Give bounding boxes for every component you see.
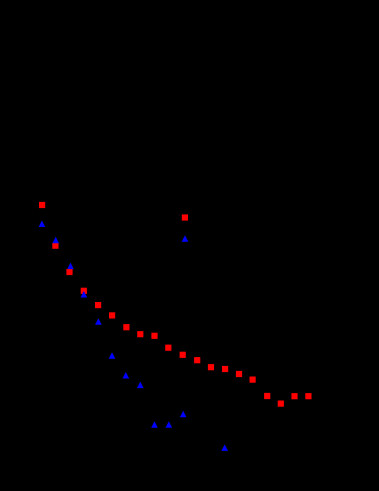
red square marker R12 bbox=[194, 357, 200, 363]
blue triangle marker B3 bbox=[67, 263, 74, 270]
red square marker R14 bbox=[222, 366, 228, 372]
blue triangle marker B9 bbox=[151, 421, 158, 428]
red square marker R16 bbox=[250, 377, 256, 383]
red square marker R2 bbox=[52, 243, 58, 249]
blue triangle marker B13 bbox=[182, 235, 189, 242]
blue triangle marker B6 bbox=[109, 352, 116, 359]
blue triangle marker B2 bbox=[52, 237, 59, 244]
red square marker R4 bbox=[81, 288, 87, 294]
red square marker R13 bbox=[208, 364, 214, 370]
red square marker R17 bbox=[264, 393, 270, 399]
red square marker R1 bbox=[39, 202, 45, 208]
blue triangle marker B12 bbox=[221, 444, 228, 451]
blue triangle marker B5 bbox=[95, 318, 102, 325]
blue triangle marker B8 bbox=[137, 382, 144, 389]
red square marker R20 bbox=[305, 393, 311, 399]
red square marker R3 bbox=[66, 269, 72, 275]
red square marker R6 bbox=[109, 312, 115, 318]
red square marker R5 bbox=[95, 302, 101, 308]
red square marker R15 bbox=[236, 371, 242, 377]
red square marker R7 bbox=[123, 324, 129, 330]
blue triangle marker B11 bbox=[180, 411, 187, 418]
red square marker R11 bbox=[180, 352, 186, 358]
red square marker R9 bbox=[151, 333, 157, 339]
blue triangle marker B7 bbox=[123, 372, 130, 379]
red square marker R18 bbox=[278, 401, 284, 407]
red square marker R8 bbox=[137, 331, 143, 337]
red square marker R10 bbox=[165, 345, 171, 351]
blue triangle marker B10 bbox=[166, 421, 173, 428]
red square marker R19 bbox=[291, 393, 297, 399]
blue triangle marker B4 bbox=[81, 291, 88, 298]
blue triangle marker B1 bbox=[39, 221, 46, 228]
red square marker R21 bbox=[182, 214, 188, 220]
